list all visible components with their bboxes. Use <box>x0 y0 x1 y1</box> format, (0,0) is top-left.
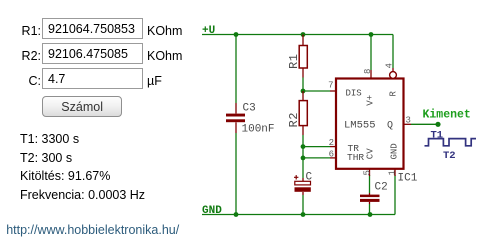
svg-text:GND: GND <box>390 143 400 159</box>
svg-text:DIS: DIS <box>346 88 362 98</box>
svg-text:2: 2 <box>329 138 334 148</box>
svg-text:V+: V+ <box>365 95 375 106</box>
svg-text:Kimenet: Kimenet <box>423 108 471 121</box>
svg-text:LM555: LM555 <box>344 119 376 131</box>
svg-text:IC1: IC1 <box>398 173 418 185</box>
svg-text:R1: R1 <box>287 54 301 69</box>
svg-text:6: 6 <box>329 149 334 159</box>
svg-text:100nF: 100nF <box>242 124 275 136</box>
svg-text:CV: CV <box>366 148 376 159</box>
svg-text:C3: C3 <box>243 103 256 115</box>
svg-text:1: 1 <box>388 170 398 175</box>
svg-text:T2: T2 <box>443 150 456 162</box>
svg-text:4: 4 <box>385 63 395 68</box>
svg-text:T1: T1 <box>431 129 444 141</box>
svg-text:R2: R2 <box>287 112 301 127</box>
svg-text:+U: +U <box>202 25 215 37</box>
svg-text:7: 7 <box>328 81 333 91</box>
svg-text:GND: GND <box>202 205 222 217</box>
svg-text:5: 5 <box>363 170 373 175</box>
svg-text:C2: C2 <box>375 182 388 194</box>
svg-text:3: 3 <box>406 116 411 126</box>
svg-text:C: C <box>306 172 313 184</box>
svg-text:THR: THR <box>347 152 364 163</box>
svg-text:8: 8 <box>363 69 373 74</box>
svg-text:R: R <box>389 91 399 97</box>
svg-text:Q: Q <box>387 121 393 132</box>
